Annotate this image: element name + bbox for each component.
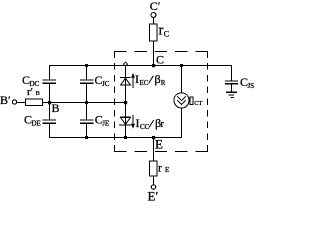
svg-text:EC: EC — [140, 79, 149, 87]
wire rE top — [153, 138, 155, 162]
svg-text:B: B — [36, 90, 41, 97]
wire current source bottom — [181, 108, 183, 138]
svg-text:R: R — [161, 79, 166, 87]
wire left branch upper — [49, 66, 51, 80]
wire current source top — [181, 66, 183, 93]
junction dot second branch top — [85, 64, 88, 67]
svg-text:C: C — [164, 30, 169, 39]
wire E rail — [49, 137, 182, 139]
svg-text:B′: B′ — [0, 93, 11, 107]
arrow ICC — [131, 115, 135, 129]
wire rE bottom — [153, 176, 155, 185]
wire rC top — [153, 17, 155, 24]
capacitor CJE — [80, 120, 93, 123]
current source ICT circle — [174, 93, 189, 108]
svg-text:r: r — [161, 119, 165, 130]
svg-text:C: C — [156, 53, 164, 67]
svg-text:JE: JE — [102, 119, 109, 127]
wire rC bottom — [153, 41, 155, 66]
diode D2 bottom (B-E forward) — [119, 117, 131, 125]
svg-text:CC: CC — [140, 123, 150, 131]
svg-text:r: r — [159, 23, 164, 39]
junction dot second branch bottom — [85, 136, 88, 139]
capacitor CDC — [43, 80, 57, 83]
resistor rC — [150, 24, 158, 41]
junction dot current source top — [180, 64, 183, 67]
svg-text:B: B — [52, 101, 60, 115]
svg-text:r: r — [158, 161, 162, 175]
wire CJS to ground — [231, 84, 233, 91]
svg-text:C′: C′ — [150, 0, 161, 13]
svg-text:DC: DC — [30, 80, 40, 88]
junction dot second branch B — [85, 101, 88, 104]
resistor r'B — [26, 99, 43, 106]
capacitor CDE — [43, 120, 57, 123]
svg-text:β: β — [155, 72, 161, 86]
wire diode branch — [125, 66, 127, 138]
svg-text:JS: JS — [248, 82, 255, 90]
svg-text:E: E — [155, 137, 163, 152]
terminal C' circle — [151, 13, 156, 18]
node C dot — [152, 64, 155, 67]
wire left branch lower — [49, 124, 51, 138]
node diamond diode branch top — [124, 62, 128, 66]
capacitor CJC — [80, 80, 93, 83]
diode D1 top (B-C reverse) — [120, 78, 131, 86]
ground — [226, 92, 237, 97]
svg-text:JC: JC — [102, 80, 110, 88]
capacitor CJS — [225, 81, 238, 84]
wire C rail — [49, 65, 232, 67]
svg-text:E: E — [165, 166, 169, 174]
svg-text:E′: E′ — [148, 189, 159, 204]
wire B rail — [43, 102, 126, 104]
dashed box right edge — [207, 52, 209, 152]
svg-text:DE: DE — [32, 119, 41, 127]
svg-text:CT: CT — [194, 100, 202, 107]
resistor rE — [150, 161, 158, 176]
dashed box bottom edge — [114, 151, 208, 153]
wire second branch lower — [86, 124, 88, 138]
dashed box left edge — [114, 52, 116, 152]
node E dot — [152, 136, 155, 139]
dashed box top edge — [114, 51, 208, 53]
wire C rail corner down to CJS — [231, 66, 233, 81]
wire second branch upper — [86, 66, 88, 80]
junction dot diode branch E — [124, 136, 127, 139]
wire B' to resistor — [17, 102, 25, 104]
svg-text:I: I — [136, 116, 140, 130]
label ICT — [190, 97, 193, 104]
terminal B' circle — [12, 100, 16, 104]
wire second branch mid — [86, 84, 88, 120]
terminal E' circle — [151, 185, 156, 190]
node B dot — [48, 101, 51, 104]
svg-text:I: I — [135, 72, 139, 86]
arrow IEC — [131, 73, 135, 88]
wire left branch mid — [49, 84, 51, 120]
junction dot diode branch B — [124, 101, 127, 104]
